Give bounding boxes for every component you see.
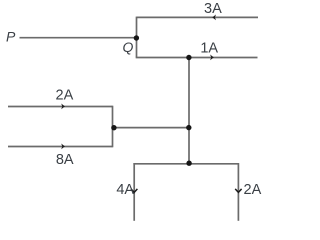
wire central vertical (188, 57, 190, 164)
node Q junction dot (134, 35, 139, 40)
svg-text:2A: 2A (244, 182, 262, 198)
arrow 3A pointing left (212, 15, 216, 21)
wire 8A lead horizontal (8, 146, 113, 148)
svg-text:3A: 3A (204, 1, 222, 17)
wire middle horizontal link (113, 127, 190, 129)
svg-text:4A: 4A (116, 182, 134, 198)
wire left vertical joining 2A and 8A (112, 106, 114, 148)
wire top horizontal 3A branch (137, 16, 259, 18)
svg-text:8A: 8A (56, 152, 74, 168)
svg-text:Q: Q (123, 39, 134, 55)
junction node bottom (186, 161, 191, 166)
arrow 8A pointing right (61, 144, 65, 150)
wire P lead (20, 37, 137, 39)
arrow 2A (bottom) pointing down (235, 189, 241, 193)
wire vertical drop to node Q (136, 17, 138, 58)
wire bottom-right vertical 2A branch (237, 163, 239, 221)
wire 2A lead horizontal (8, 106, 113, 108)
wire bottom-left vertical 4A branch (133, 163, 135, 221)
junction node upper-right (186, 55, 191, 60)
svg-text:1A: 1A (200, 40, 218, 56)
junction node left-middle (111, 125, 116, 130)
arrow 1A pointing right (210, 55, 214, 61)
wire bottom horizontal bus (133, 163, 239, 165)
svg-text:P: P (6, 28, 16, 44)
arrow 4A pointing down (131, 189, 137, 193)
svg-text:2A: 2A (56, 87, 74, 103)
wire 1A branch horizontal (136, 57, 258, 59)
arrow 2A pointing right (61, 104, 65, 110)
junction node center (186, 125, 191, 130)
